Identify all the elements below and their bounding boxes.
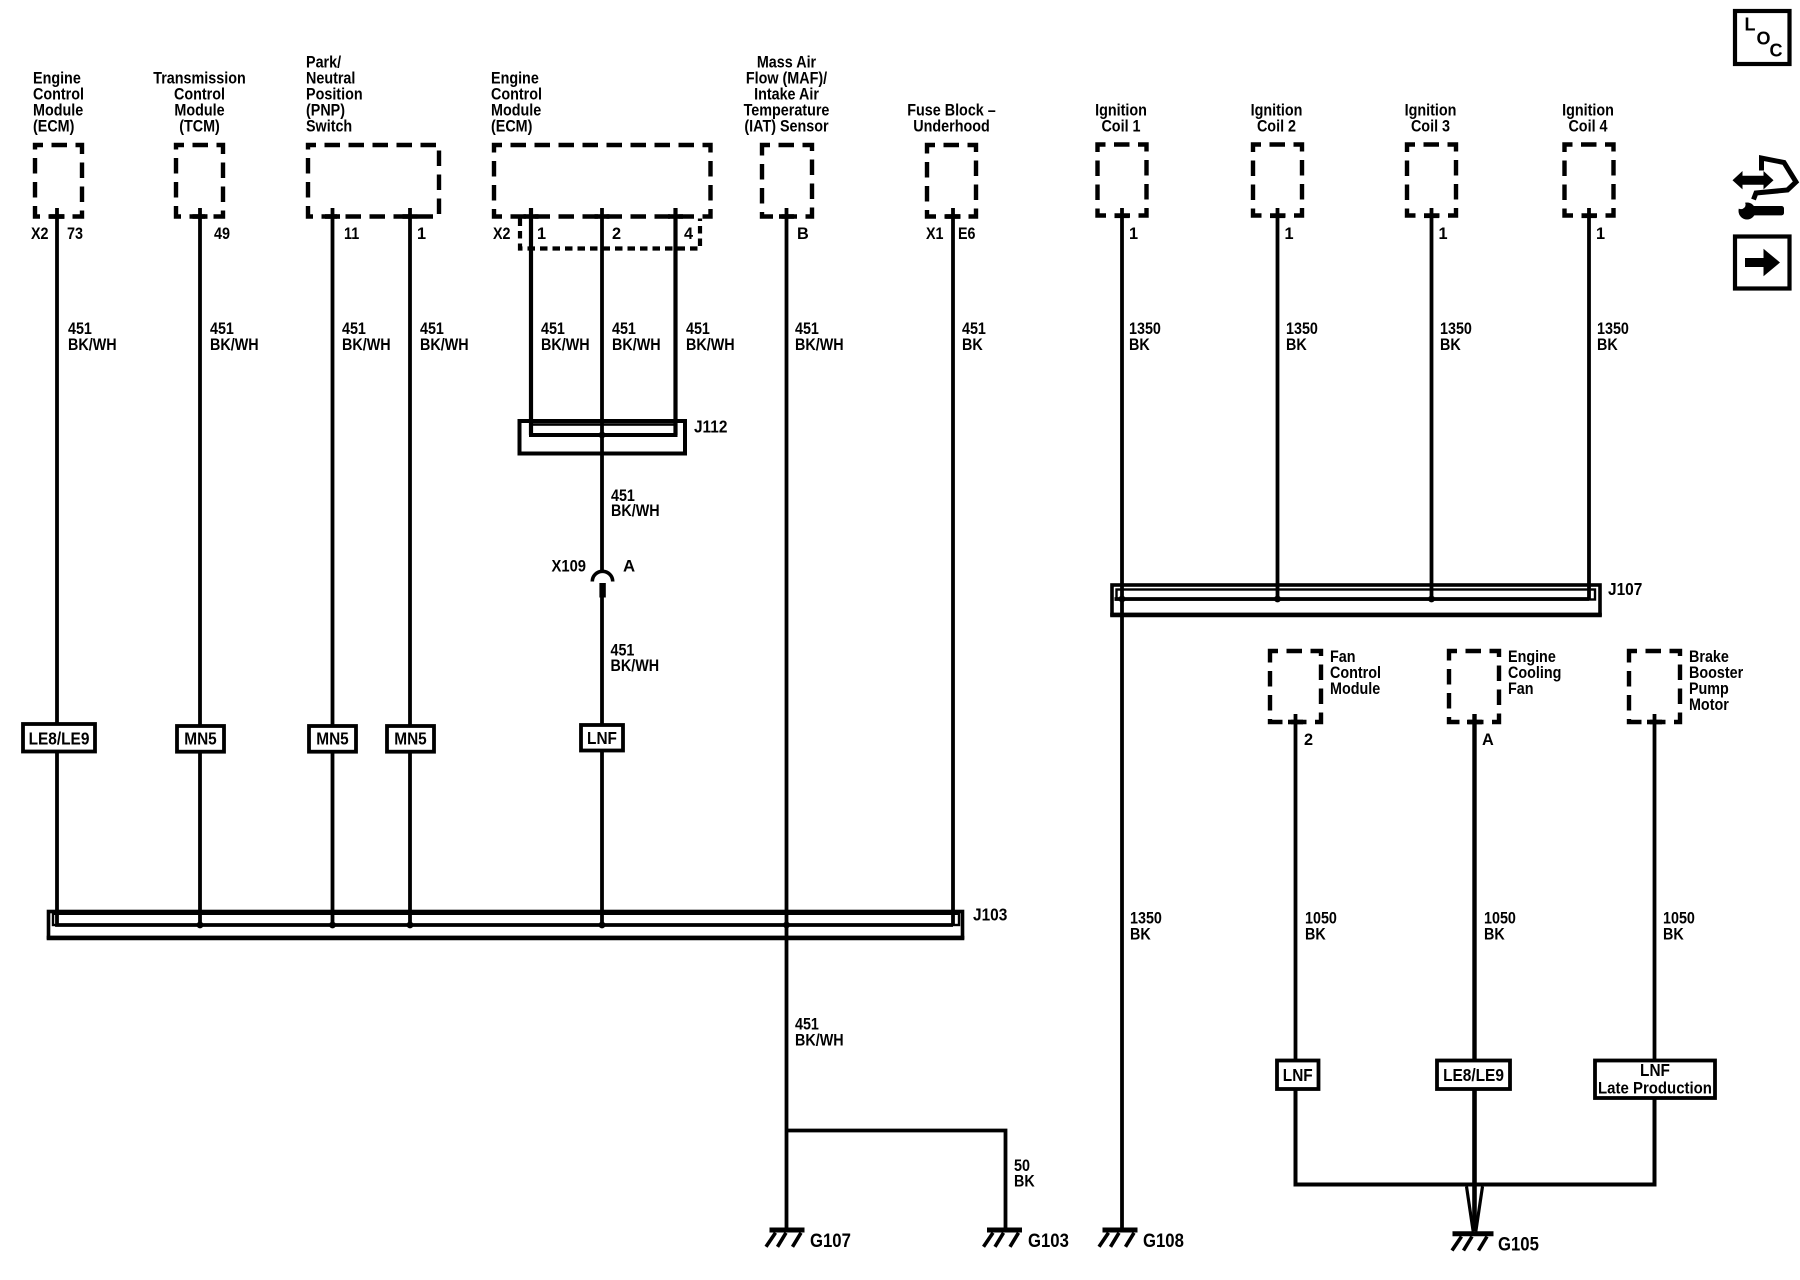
svg-text:BK: BK [1484, 926, 1505, 944]
svg-text:Module: Module [1330, 680, 1380, 698]
svg-text:MN5: MN5 [394, 729, 427, 749]
wire 451 BK from fuse block pin E6 [951, 208, 955, 925]
svg-text:LE8/LE9: LE8/LE9 [1443, 1065, 1504, 1085]
svg-text:BK: BK [962, 336, 983, 354]
svg-text:BK/WH: BK/WH [795, 1032, 844, 1050]
ground G105 [1453, 1231, 1494, 1236]
svg-text:Late Production: Late Production [1598, 1079, 1712, 1098]
Fuse Block - Underhood [927, 145, 976, 217]
svg-text:MN5: MN5 [184, 729, 217, 749]
svg-text:BK: BK [1663, 926, 1684, 944]
branch wire 50 BK to G103 [787, 1131, 1006, 1229]
engine option box MN5 (1) [177, 726, 224, 752]
LOC legend box [1735, 11, 1790, 64]
Engine Control Module (ECM) connector X2, pins 1/2/4 [494, 145, 711, 217]
svg-text:E6: E6 [958, 225, 976, 243]
svg-text:LNF: LNF [1640, 1060, 1670, 1080]
svg-text:A: A [1482, 731, 1494, 749]
svg-text:11: 11 [344, 225, 359, 243]
svg-text:73: 73 [67, 225, 83, 243]
connector pin tabs where wires exit component boxes [50, 214, 65, 219]
wire 1050 BK from fan control module pin 2 [1294, 714, 1298, 1061]
svg-text:J103: J103 [973, 905, 1008, 925]
svg-text:Underhood: Underhood [913, 118, 990, 136]
svg-text:Coil 2: Coil 2 [1257, 118, 1296, 136]
right-arrow legend box [1735, 237, 1790, 289]
wire 451 BK/WH from PNP pin 11 [331, 208, 335, 726]
svg-text:Motor: Motor [1689, 696, 1729, 714]
ground G107 [770, 1228, 805, 1233]
svg-text:BK/WH: BK/WH [611, 502, 660, 520]
svg-text:J107: J107 [1608, 579, 1642, 599]
engine option box MN5 (2) [309, 726, 356, 752]
wire from LNF box to G105 junction [1296, 1089, 1655, 1185]
svg-text:BK: BK [1129, 336, 1150, 354]
wire 451 BK/WH from ECM pin 4 [673, 208, 677, 435]
svg-text:BK/WH: BK/WH [612, 336, 661, 354]
svg-text:Coil 1: Coil 1 [1101, 118, 1140, 136]
junction dots on J107 [1119, 596, 1126, 603]
Fan Control Module [1270, 651, 1321, 722]
svg-text:(ECM): (ECM) [33, 118, 74, 136]
Ignition Coil 2 [1253, 145, 1302, 216]
svg-text:LE8/LE9: LE8/LE9 [29, 729, 90, 749]
engine option box LNF [581, 725, 623, 751]
wire 1350 BK from ignition coil 4 [1587, 208, 1591, 599]
svg-text:BK/WH: BK/WH [420, 336, 469, 354]
Engine Cooling Fan [1449, 651, 1499, 722]
Ignition Coil 1 [1098, 145, 1147, 216]
wire from LNF option box to J103 [600, 751, 604, 926]
svg-text:J112: J112 [694, 417, 728, 437]
wire 1350 BK from ignition coil 2 [1276, 208, 1280, 599]
wire 451 BK/WH from X109 to LNF [600, 595, 604, 725]
Park/Neutral Position (PNP) Switch [308, 145, 439, 217]
svg-text:2: 2 [1304, 731, 1313, 749]
svg-text:X2: X2 [31, 225, 49, 243]
svg-text:X2: X2 [493, 225, 511, 243]
splice pack J112 [520, 421, 686, 454]
engine option box LNF Late Production [1595, 1061, 1715, 1099]
svg-text:O: O [1757, 29, 1771, 49]
junction dot J112 wire 2 [599, 432, 606, 439]
svg-text:(ECM): (ECM) [491, 118, 532, 136]
svg-text:Switch: Switch [306, 118, 352, 136]
svg-text:X109: X109 [552, 557, 587, 576]
wire 1350 BK from ignition coil 1 [1120, 208, 1124, 1228]
svg-text:(TCM): (TCM) [179, 118, 220, 136]
wire 1350 BK from ignition coil 3 [1430, 208, 1434, 599]
svg-text:LNF: LNF [587, 728, 617, 748]
svg-text:A: A [623, 557, 635, 576]
svg-text:1: 1 [1285, 225, 1294, 243]
Ignition Coil 3 [1407, 145, 1456, 216]
wire 451 BK/WH from PNP pin 1 [408, 208, 412, 726]
svg-text:1: 1 [1129, 225, 1138, 243]
svg-text:BK/WH: BK/WH [68, 336, 117, 354]
svg-text:(IAT) Sensor: (IAT) Sensor [744, 118, 829, 136]
inline connector X109 pin A [592, 571, 612, 581]
svg-text:X1: X1 [926, 225, 944, 243]
svg-text:MN5: MN5 [316, 729, 349, 749]
converging wires into G105 [1467, 1187, 1474, 1232]
svg-text:LNF: LNF [1283, 1065, 1313, 1085]
Brake Booster Pump Motor [1629, 651, 1680, 722]
engine option box LE8/LE9 [23, 724, 95, 752]
svg-text:49: 49 [214, 225, 230, 243]
svg-text:B: B [797, 225, 809, 243]
svg-text:BK: BK [1597, 336, 1618, 354]
wire 451 BK/WH from TCM pin 49 [198, 208, 202, 726]
wire 451 BK/WH from ECM pin 73 [55, 208, 59, 724]
wire from LE8/LE9 box to G105 [1472, 1089, 1477, 1230]
wire 451 BK/WH from ECM pin 1 [529, 208, 533, 435]
svg-text:BK: BK [1286, 336, 1307, 354]
ground G103 [987, 1228, 1022, 1233]
svg-text:BK/WH: BK/WH [210, 336, 259, 354]
wire 1050 BK from brake booster pump motor [1653, 714, 1657, 1061]
wire 1050 BK from engine cooling fan pin A [1472, 714, 1476, 1061]
engine option box MN5 (3) [387, 726, 434, 752]
svg-text:G107: G107 [810, 1231, 851, 1252]
svg-text:BK: BK [1130, 926, 1151, 944]
engine option box LNF (fan control) [1277, 1061, 1319, 1090]
Engine Control Module (ECM) connector X2 [35, 145, 82, 217]
jump/transfer icon (double arrow, outline arrow, wrench) [1733, 171, 1774, 189]
Mass Air Flow (MAF)/ Intake Air Temperature (IAT) Sensor [762, 145, 812, 217]
engine option box LE8/LE9 (cooling fan) [1437, 1061, 1510, 1090]
svg-text:Fan: Fan [1508, 680, 1534, 698]
svg-text:BK/WH: BK/WH [541, 336, 590, 354]
svg-text:1: 1 [1596, 225, 1605, 243]
svg-text:BK: BK [1440, 336, 1461, 354]
svg-text:BK: BK [1305, 926, 1326, 944]
svg-text:2: 2 [612, 225, 621, 243]
bus wire inside J107 [1115, 597, 1590, 601]
svg-text:BK/WH: BK/WH [342, 336, 391, 354]
svg-text:G103: G103 [1028, 1231, 1069, 1252]
svg-text:G108: G108 [1143, 1231, 1184, 1252]
svg-text:Coil 4: Coil 4 [1568, 118, 1607, 136]
wire 451 BK/WH from MAF/IAT pin B [785, 208, 789, 1228]
svg-text:BK/WH: BK/WH [795, 336, 844, 354]
svg-text:1: 1 [1439, 225, 1448, 243]
Ignition Coil 4 [1565, 145, 1614, 216]
svg-text:BK: BK [1014, 1173, 1035, 1191]
svg-text:1: 1 [537, 225, 546, 243]
svg-text:C: C [1770, 41, 1783, 61]
ECM X2 sub-connector dashed box [520, 219, 700, 249]
bus wire inside J103 [57, 752, 953, 926]
junction dots on J103 [197, 922, 204, 929]
wire 451 BK/WH from ECM pin 2 [600, 208, 604, 572]
svg-text:4: 4 [684, 225, 693, 243]
ground G108 [1103, 1228, 1138, 1233]
svg-text:BK/WH: BK/WH [686, 336, 735, 354]
splice pack J103 [49, 912, 963, 938]
splice pack J107 [1112, 585, 1600, 615]
svg-text:L: L [1745, 15, 1756, 35]
svg-text:Coil 3: Coil 3 [1411, 118, 1450, 136]
svg-text:1: 1 [417, 225, 426, 243]
svg-text:BK/WH: BK/WH [611, 657, 660, 675]
svg-text:G105: G105 [1498, 1235, 1539, 1256]
Transmission Control Module (TCM) [176, 145, 223, 217]
